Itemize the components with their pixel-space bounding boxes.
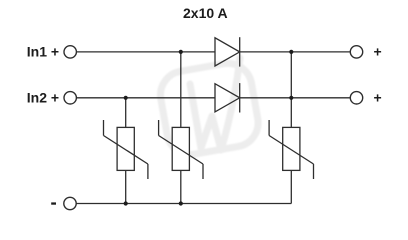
terminal out2 <box>350 92 362 104</box>
diode D2 <box>215 83 240 112</box>
junction dot In1/V2 <box>179 50 183 54</box>
wire V1 bottom stem <box>125 170 127 203</box>
svg-text:In2 +: In2 + <box>27 90 59 106</box>
junction dot rail/V2 <box>179 201 183 205</box>
label minus <box>51 202 56 204</box>
junction dot In1/right column <box>289 50 293 54</box>
svg-text:In1 +: In1 + <box>27 44 59 60</box>
wire bottom rail <box>76 203 291 205</box>
watermark logo <box>157 58 262 158</box>
wire In2 right <box>240 97 351 99</box>
wire vertical V2 column <box>180 52 182 128</box>
svg-text:+: + <box>374 44 382 60</box>
varistor R1 <box>104 120 148 179</box>
wire In2 left <box>76 97 215 99</box>
varistor R3 <box>269 120 313 179</box>
terminal minus <box>64 197 76 209</box>
wire V2 bottom stem <box>180 170 182 203</box>
terminal In2 <box>64 92 76 104</box>
wire V3 bottom stem <box>290 170 292 203</box>
junction dot In2/right column <box>289 96 293 100</box>
junction dot In2/V1 <box>124 96 128 100</box>
wire In1 left <box>76 51 215 53</box>
varistor R2 <box>159 120 203 179</box>
svg-text:+: + <box>374 90 382 106</box>
junction dot rail/V1 <box>124 201 128 205</box>
wire vertical V1 column <box>125 98 127 128</box>
diode D1 <box>215 37 240 66</box>
wire vertical right column <box>290 52 292 128</box>
terminal out1 <box>350 46 362 58</box>
svg-text:2x10 A: 2x10 A <box>183 5 228 21</box>
wire In1 right <box>240 51 351 53</box>
terminal In1 <box>64 46 76 58</box>
